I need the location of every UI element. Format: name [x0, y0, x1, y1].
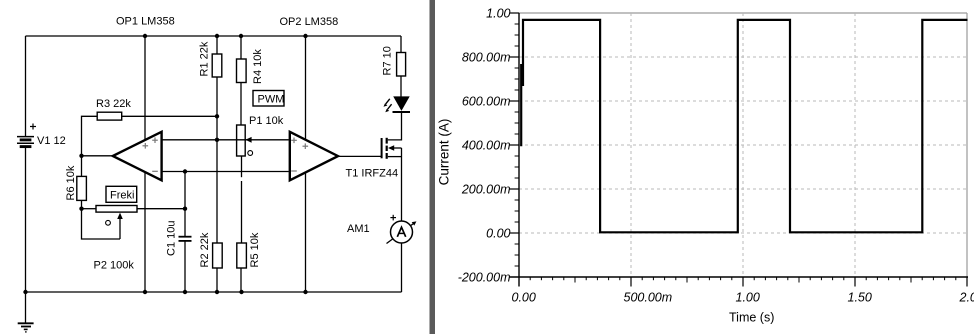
op-amp OP2	[280, 16, 339, 180]
wire OP2 V- supply	[305, 173, 307, 292]
svg-text:R1 22k: R1 22k	[199, 41, 211, 76]
svg-text:1.00: 1.00	[486, 6, 510, 20]
y axis labels	[458, 6, 511, 284]
x axis	[510, 276, 969, 278]
resistor R4	[237, 49, 265, 84]
x axis labels	[512, 291, 974, 305]
svg-text:R4 10k: R4 10k	[252, 49, 264, 84]
wire OP1 V+ supply	[144, 36, 146, 140]
wire R1 top lead	[216, 36, 218, 54]
waveform trace	[523, 20, 968, 232]
resistor R1	[199, 41, 222, 77]
svg-text:R7 10: R7 10	[381, 46, 393, 75]
capacitor C1	[165, 221, 191, 256]
y axis ticks	[510, 13, 520, 266]
resistor R2	[199, 232, 222, 268]
wire OP2 output to gate	[338, 155, 382, 157]
plot top and right border	[519, 13, 967, 277]
svg-text:P2 100k: P2 100k	[94, 260, 135, 272]
panel separator bar	[430, 0, 436, 334]
wire R6 bottom lead	[81, 200, 83, 208]
svg-text:T1 IRFZ44: T1 IRFZ44	[346, 168, 399, 180]
wire OP2 V+ supply	[305, 36, 307, 141]
wire OP1 output	[82, 155, 114, 157]
svg-text:200.00m: 200.00m	[461, 182, 511, 196]
ammeter AM1	[347, 215, 416, 244]
wire R4 to P1	[240, 83, 242, 126]
wire source lead	[388, 156, 402, 158]
x axis ticks	[530, 277, 967, 287]
op-amp OP1	[113, 16, 175, 181]
potentiometer P2	[94, 206, 138, 272]
wire bottom ground rail	[26, 291, 402, 293]
svg-text:400.00m: 400.00m	[462, 138, 511, 152]
svg-text:OP2 LM358: OP2 LM358	[280, 16, 339, 28]
LED D1	[384, 96, 411, 112]
wire source down to ammeter	[401, 148, 403, 221]
label box PWM	[253, 91, 284, 107]
ground	[18, 292, 34, 332]
wire R6 top lead	[81, 156, 83, 177]
potentiometer P1	[237, 115, 284, 156]
wire P1 to R5 upper	[241, 156, 243, 177]
resistor R5	[237, 232, 261, 268]
wire R3 right lead	[122, 115, 217, 117]
resistor R6	[65, 165, 87, 200]
y axis	[518, 13, 520, 287]
resistor R3	[96, 98, 131, 120]
svg-text:OP1 LM358: OP1 LM358	[116, 16, 175, 28]
svg-text:R2 22k: R2 22k	[199, 232, 211, 267]
svg-text:0.00: 0.00	[486, 226, 510, 240]
battery V1	[17, 124, 66, 148]
svg-text:PWM: PWM	[258, 94, 285, 106]
svg-text:Time (s): Time (s)	[729, 310, 774, 324]
svg-text:500.00m: 500.00m	[624, 291, 673, 305]
svg-text:-200.00m: -200.00m	[458, 270, 511, 284]
svg-text:2.00: 2.00	[959, 291, 974, 305]
svg-text:0.00: 0.00	[512, 291, 536, 305]
wire R2 bottom lead	[216, 268, 218, 292]
svg-text:P1 10k: P1 10k	[249, 115, 284, 127]
svg-text:1.50: 1.50	[848, 291, 872, 305]
wire P2 left lead	[82, 208, 97, 210]
svg-text:V1 12: V1 12	[37, 135, 66, 147]
wire R7 top lead	[400, 36, 402, 53]
wire R5 bottom lead	[240, 268, 242, 292]
dashed gridlines	[519, 13, 967, 277]
wire C1 top lead	[184, 172, 186, 237]
svg-text:R5 10k: R5 10k	[249, 232, 261, 267]
wire ammeter to ground rail	[401, 243, 403, 292]
svg-text:Current (A): Current (A)	[437, 119, 452, 186]
svg-text:800.00m: 800.00m	[462, 50, 511, 64]
wire C1 bottom lead	[184, 242, 186, 293]
wire drain lead	[388, 113, 402, 140]
svg-text:C1 10u: C1 10u	[165, 221, 177, 256]
wire P1 to R5 lower	[241, 181, 243, 243]
wire R1 to R2 column	[216, 77, 218, 243]
wire R4 top lead	[240, 36, 242, 59]
wire inverting input net	[162, 171, 289, 173]
svg-text:600.00m: 600.00m	[462, 94, 511, 108]
waveform startup transient	[520, 64, 522, 146]
wire left rail upper segment	[25, 36, 27, 137]
label box Freki	[106, 186, 137, 202]
wire R7 to LED	[400, 76, 402, 97]
resistor R7	[381, 46, 405, 76]
junction dots	[23, 34, 307, 294]
wire R3 left leg	[82, 116, 98, 156]
wire non-inverting input net	[162, 139, 289, 141]
svg-text:1.00: 1.00	[736, 291, 760, 305]
svg-text:Freki: Freki	[110, 190, 134, 202]
wire P2 right lead to C1 node	[137, 208, 185, 210]
transistor T1 MOSFET	[346, 138, 402, 180]
wire OP1 V- supply	[144, 172, 146, 292]
svg-text:R6 10k: R6 10k	[65, 165, 77, 200]
wire left rail lower segment	[25, 148, 27, 292]
wire P2 wiper loop	[82, 209, 121, 239]
svg-text:R3 22k: R3 22k	[96, 98, 131, 110]
svg-text:AM1: AM1	[347, 223, 370, 235]
wire top supply rail	[26, 35, 402, 37]
